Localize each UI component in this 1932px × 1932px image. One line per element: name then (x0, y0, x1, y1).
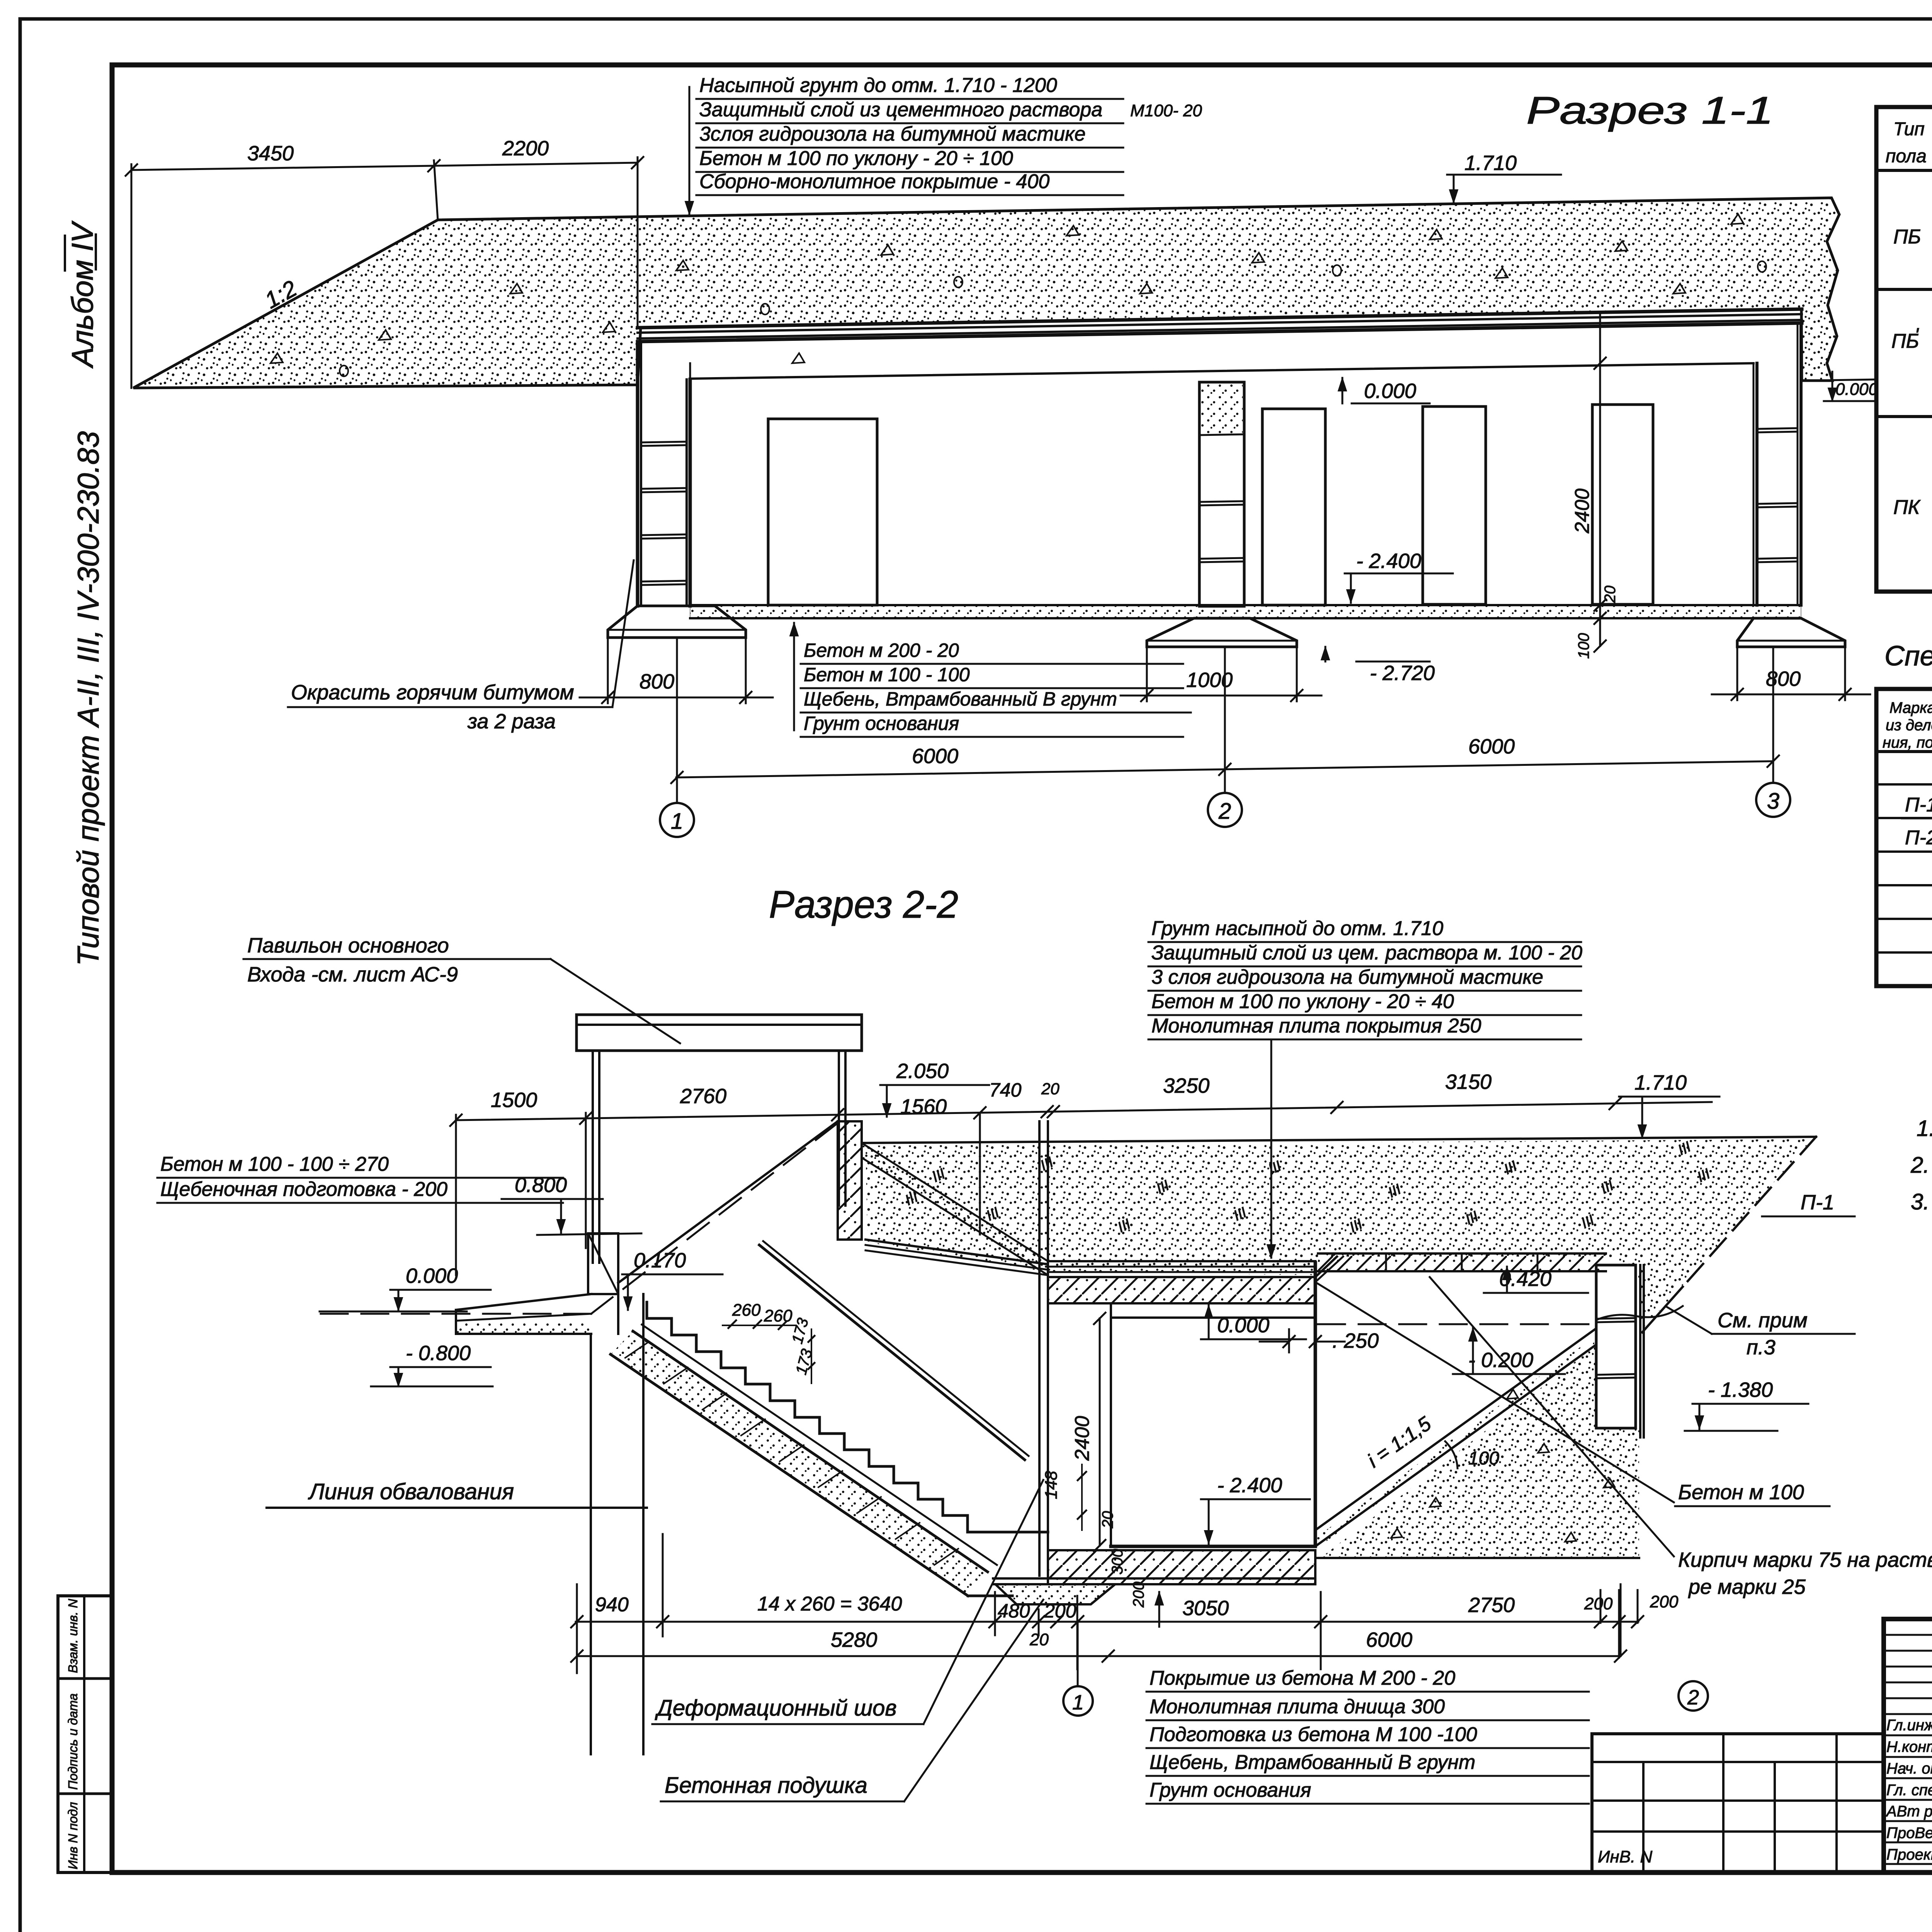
svg-text:Бетон м 100 по уклону: Бетон м 100 по уклону - 20 ÷ 40 (1151, 990, 1454, 1013)
svg-text:Сборно-монолитное покрытие -: Сборно-монолитное покрытие - 400 (699, 170, 1049, 193)
dim 1000 axis 2 (1146, 647, 1148, 701)
stair steps (647, 1302, 992, 1532)
svg-text:6000: 6000 (1366, 1628, 1412, 1651)
joint 20 continues up (1038, 1121, 1041, 1275)
svg-text:1.710: 1.710 (1634, 1071, 1687, 1094)
title block outline (1884, 1619, 1932, 1872)
dim 3450 (131, 166, 434, 170)
floor table header row line (1876, 169, 1932, 172)
svg-text:ния, позиц: ния, позиц (1883, 734, 1932, 751)
svg-text:М100- 20: М100- 20 (1130, 101, 1202, 120)
circled axis 1 (2-2) (1063, 1686, 1093, 1716)
svg-text:- 0.200: - 0.200 (1468, 1349, 1533, 1372)
svg-text:Инв N подл: Инв N подл (66, 1802, 80, 1869)
svg-text:пола: пола (1886, 146, 1927, 167)
leader arrow from note list to slab (1270, 1040, 1272, 1258)
svg-text:2. Данный лист рассматривать: 2. Данный лист рассматривать совместно с… (1910, 1153, 1932, 1178)
svg-text:Кирпич марки 75 на раство-: Кирпич марки 75 на раство- (1678, 1548, 1932, 1571)
entrance slope line to pavilion (618, 1121, 838, 1283)
svg-text:Деформационный шов: Деформационный шов (655, 1696, 897, 1721)
embankment earth fill 2-2 (866, 1139, 1812, 1329)
middle pier axis 2 with concrete infill (1199, 382, 1244, 606)
svg-text:3450: 3450 (247, 142, 294, 165)
svg-text:200: 200 (1584, 1594, 1613, 1613)
svg-text:1: 1 (1072, 1691, 1084, 1714)
svg-text:0.000: 0.000 (1217, 1314, 1269, 1337)
svg-text:5280: 5280 (831, 1628, 877, 1651)
svg-text:из деле-: из деле- (1886, 717, 1932, 734)
svg-text:Насыпной грунт до отм. 1.710: Насыпной грунт до отм. 1.710 - 1200 (699, 74, 1057, 97)
svg-text:20: 20 (1602, 586, 1619, 604)
svg-text:Грунт насыпной до отм. 1.7: Грунт насыпной до отм. 1.710 (1151, 917, 1443, 940)
svg-text:20: 20 (1099, 1511, 1116, 1529)
svg-text:2200: 2200 (502, 137, 549, 160)
svg-text:1. Примечание см. лист АС-: 1. Примечание см. лист АС-6 (1917, 1116, 1932, 1141)
svg-text:ПК: ПК (1893, 496, 1921, 519)
floor table row lines (1876, 288, 1932, 291)
svg-text:2: 2 (1687, 1686, 1699, 1709)
svg-text:- 1.380: - 1.380 (1708, 1378, 1773, 1401)
svg-text:100: 100 (1575, 633, 1592, 659)
svg-text:Бетон м 100 - 100: Бетон м 100 - 100 (804, 664, 970, 685)
svg-text:3 слоя гидроизола на биту: 3 слоя гидроизола на битумной мастике (1151, 966, 1543, 988)
dashed datum line across entrance (321, 1313, 591, 1315)
right slope earth fill (1321, 1346, 1639, 1557)
svg-text:3: 3 (1767, 789, 1779, 814)
vertical dim 2400 pit (1099, 1318, 1101, 1546)
ext line 740/20 to door block (979, 1113, 981, 1235)
svg-text:Взам. инв. N: Взам. инв. N (66, 1599, 80, 1673)
svg-text:Н.контр.сс: Н.контр.сс (1886, 1738, 1932, 1755)
svg-text:- 2.400: - 2.400 (1217, 1474, 1282, 1497)
svg-text:300: 300 (1109, 1549, 1126, 1575)
door opening rect 4 (1592, 405, 1653, 604)
door opening rect 3 (1423, 406, 1486, 604)
svg-text:1: 1 (671, 809, 683, 834)
cover plates П-1 over pit right (1318, 1252, 1606, 1255)
pit ceiling slab top lines (1048, 1260, 1315, 1262)
svg-text:П-1: П-1 (1905, 794, 1932, 816)
svg-text:Спецификация элементов к: Спецификация элементов к листам АС-5, АС… (1884, 641, 1932, 672)
svg-text:Защитный слой из цементного ра: Защитный слой из цементного раствора (699, 99, 1102, 121)
svg-text:Бетонная подушка: Бетонная подушка (665, 1773, 867, 1798)
dim extension lines (2-2 top row) (455, 1115, 457, 1275)
svg-text:ре марки 25: ре марки 25 (1688, 1575, 1806, 1599)
svg-text:Бетон м 100 - 100: Бетон м 100 - 100 ÷ 270 (160, 1153, 389, 1175)
svg-text:2400: 2400 (1571, 488, 1594, 534)
svg-text:260: 260 (764, 1306, 793, 1325)
spec table outline (1876, 689, 1932, 986)
stair landing to pit wall (992, 1531, 1048, 1534)
svg-text:1500: 1500 (491, 1088, 537, 1112)
axis extension lines (676, 638, 678, 803)
svg-text:Монолитная плита днища: Монолитная плита днища 300 (1150, 1696, 1445, 1718)
ground line left (320, 1311, 467, 1313)
svg-text:П-1: П-1 (1801, 1191, 1834, 1214)
entrance apron slab (456, 1294, 591, 1310)
left margin stamp table (58, 1596, 112, 1872)
dims 1500 / 2760 / 1560 / 740 / 20 / 3250 / 3150 row (456, 1115, 838, 1120)
deformation joint wall lines (1038, 1275, 1041, 1576)
svg-text:6000: 6000 (1468, 735, 1515, 758)
dim extension lines (131, 164, 133, 388)
svg-text:3050: 3050 (1182, 1597, 1229, 1620)
inventory sub table (1592, 1732, 1884, 1735)
svg-text:Бетон м 100: Бетон м 100 (1678, 1481, 1804, 1504)
spec table header row (1876, 750, 1932, 753)
interior ceiling line (690, 363, 1753, 379)
svg-text:п.3: п.3 (1747, 1336, 1776, 1359)
svg-text:2400: 2400 (1071, 1416, 1094, 1461)
title block left small rows (1884, 1634, 1932, 1636)
embankment accent stones (270, 353, 283, 363)
axis circle 2 (1208, 793, 1242, 827)
dashed ground line right (1318, 1323, 1595, 1325)
right brick wall column (1596, 1265, 1636, 1428)
leader arrow for floor note (793, 623, 795, 730)
svg-text:Бетон м 100 по уклону: Бетон м 100 по уклону - 20 ÷ 100 (699, 147, 1013, 170)
bottom dims row 2: 5280 / 20 / 6000 (577, 1655, 1621, 1657)
svg-text:800: 800 (1766, 667, 1801, 690)
svg-text:Нач. отд: Нач. отд (1886, 1760, 1932, 1777)
leader lines to right labels (1315, 1282, 1674, 1502)
svg-text:АВт разд: АВт разд (1886, 1803, 1932, 1820)
svg-text:Щебеночная подготовка - 200: Щебеночная подготовка - 200 (160, 1178, 447, 1201)
svg-text:- 2.400: - 2.400 (1356, 549, 1421, 573)
svg-text:200: 200 (1650, 1592, 1679, 1611)
svg-text:260: 260 (732, 1301, 761, 1320)
svg-text:- 2.720: - 2.720 (1370, 662, 1435, 685)
pavilion columns (592, 1051, 594, 1263)
svg-text:Линия обвалования: Линия обвалования (308, 1479, 514, 1504)
svg-text:- 0.800: - 0.800 (406, 1342, 471, 1365)
dim 800 axis 1 (607, 638, 609, 703)
svg-text:3250: 3250 (1163, 1074, 1209, 1097)
svg-text:2.050: 2.050 (896, 1060, 949, 1083)
pit floor slab hatched (1048, 1550, 1315, 1584)
svg-text:Бетон м 200 - 20: Бетон м 200 - 20 (804, 639, 959, 661)
svg-text:0.000: 0.000 (406, 1264, 458, 1287)
leader with arrow from note list (689, 87, 690, 214)
axis circle 3 (1756, 783, 1790, 817)
svg-text:Подготовка из бетона М 100: Подготовка из бетона М 100 -100 (1150, 1723, 1477, 1746)
pit ceiling covering layers sloping left (866, 1240, 1048, 1264)
right slope dashed (1683, 1137, 1816, 1287)
svg-text:Грунт основания: Грунт основания (804, 713, 959, 734)
concrete pad (бетонная подушка) (995, 1584, 1115, 1604)
foundation pedestal below entrance (590, 1334, 592, 1754)
svg-text:Гл. спец.: Гл. спец. (1886, 1782, 1932, 1799)
svg-text:Гл.инж.т: Гл.инж.т (1886, 1717, 1932, 1734)
svg-text:1560: 1560 (900, 1095, 947, 1118)
door opening rect 2 (1262, 409, 1325, 605)
svg-text:Тип: Тип (1893, 119, 1925, 139)
svg-text:480: 480 (998, 1600, 1030, 1622)
svg-text:ПроВерил: ПроВерил (1886, 1825, 1932, 1842)
footing axis 2 (1147, 618, 1297, 647)
svg-text:за 2 раза: за 2 раза (467, 710, 556, 733)
svg-text:200: 200 (1130, 1582, 1147, 1608)
spec table row lines (1876, 783, 1932, 786)
svg-text:Альбом IV: Альбом IV (65, 220, 99, 369)
door opening rect 1 (768, 419, 877, 605)
svg-text:14 x 260 = 3640: 14 x 260 = 3640 (757, 1593, 902, 1615)
railing (759, 1245, 1025, 1460)
svg-text:Щебень, Втрамбованный В грунт: Щебень, Втрамбованный В грунт (804, 688, 1117, 710)
svg-text:0.000: 0.000 (1835, 380, 1878, 399)
plate edge fold to pit (1315, 1257, 1337, 1277)
svg-text:1.710: 1.710 (1464, 151, 1517, 175)
svg-text:ИнВ. N: ИнВ. N (1598, 1847, 1652, 1866)
svg-text:Окрасить горячим битумом: Окрасить горячим битумом (291, 681, 574, 704)
svg-text:3слоя гидроизола на битумно: 3слоя гидроизола на битумной мастике (699, 123, 1086, 145)
pit ceiling bottom line (1111, 1316, 1315, 1319)
dim 800 axis 3 (1736, 647, 1738, 700)
svg-text:Проектир: Проектир (1886, 1846, 1932, 1863)
building roof slab (section 1-1) (638, 309, 1802, 328)
circled axis 2 (2-2) (1679, 1681, 1708, 1711)
left retaining wall hatched (838, 1121, 862, 1240)
right wall axis 3 with joints (1753, 363, 1755, 605)
svg-text:0.800: 0.800 (515, 1173, 567, 1197)
door sill block (588, 1233, 618, 1294)
svg-text:Щебень, Втрамбованный В грун: Щебень, Втрамбованный В грунт (1150, 1751, 1475, 1774)
svg-text:740: 740 (989, 1079, 1022, 1101)
svg-text:Грунт основания: Грунт основания (1150, 1779, 1311, 1801)
svg-text:6000: 6000 (912, 745, 958, 768)
footing axis 3 (1737, 618, 1845, 647)
svg-text:Марка: Марка (1889, 699, 1932, 716)
svg-text:3150: 3150 (1445, 1070, 1492, 1094)
dim 6000 + 6000 between axes (676, 761, 1773, 777)
ext lines bottom dims (576, 1584, 578, 1673)
svg-text:См. прим: См. прим (1718, 1309, 1808, 1332)
svg-text:940: 940 (595, 1594, 629, 1616)
svg-text:Разрез 1-1: Разрез 1-1 (1526, 89, 1774, 132)
svg-text:2: 2 (1218, 799, 1231, 824)
svg-text:Разрез 2-2: Разрез 2-2 (769, 883, 958, 926)
stair slab diagonal hatch (625, 1342, 649, 1358)
svg-text:2750: 2750 (1468, 1594, 1515, 1617)
svg-text:Покрытие из бетона М 200: Покрытие из бетона М 200 - 20 (1150, 1667, 1455, 1689)
svg-text:0.000: 0.000 (1364, 379, 1416, 403)
pit interior walls (1110, 1303, 1112, 1546)
svg-text:Подпись и дата: Подпись и дата (66, 1693, 80, 1790)
axis circle 1 (660, 803, 694, 837)
stair slab bottom edge (611, 1354, 968, 1596)
bottom dims row 1 (2-2) (576, 1621, 1638, 1623)
svg-text:20: 20 (1041, 1080, 1060, 1098)
svg-text:148: 148 (1042, 1471, 1061, 1499)
pit ceiling slab hatched band (1048, 1277, 1315, 1303)
left wall axis 1, block joints (636, 342, 639, 606)
embankment outline section 1-1 (133, 198, 1839, 388)
svg-text:Защитный слой из цем. раств: Защитный слой из цем. раствора м. 100 - … (1151, 942, 1582, 964)
svg-text:Типовой проект А-II, III, IV-: Типовой проект А-II, III, IV-300-230.83 (71, 431, 105, 966)
floor gravel strip (section 1-1) (690, 605, 1801, 618)
svg-text:2760: 2760 (680, 1085, 726, 1108)
svg-text:100: 100 (1468, 1448, 1499, 1469)
svg-text:П-2: П-2 (1905, 827, 1932, 849)
floor types table outline (1876, 107, 1932, 592)
svg-text:3. При необходимости снятия: 3. При необходимости снятия плит перекры… (1911, 1189, 1932, 1214)
title block signature rows (1884, 1735, 1932, 1736)
svg-text:Павильон основного: Павильон основного (247, 934, 449, 957)
svg-text:200: 200 (1044, 1600, 1077, 1622)
svg-text:Монолитная плита покрытия: Монолитная плита покрытия 250 (1151, 1015, 1481, 1037)
svg-text:800: 800 (639, 670, 674, 693)
stair slab stipple (611, 1331, 988, 1596)
embankment surface line 2-2 (862, 1137, 1816, 1143)
pit floor (1111, 1545, 1315, 1548)
dim 2200 (434, 163, 638, 166)
footing axis 1 (608, 606, 746, 638)
pavilion roof (577, 1014, 862, 1016)
wavy excavation line (1596, 1306, 1683, 1320)
svg-text:ПБ: ПБ (1893, 226, 1921, 248)
right earth slope i=1:1.5 (1315, 1329, 1595, 1530)
vertical dim 2400 with 20 and 100 (right) (1599, 313, 1601, 646)
svg-text:Входа -см. лист АС-9: Входа -см. лист АС-9 (247, 963, 458, 986)
